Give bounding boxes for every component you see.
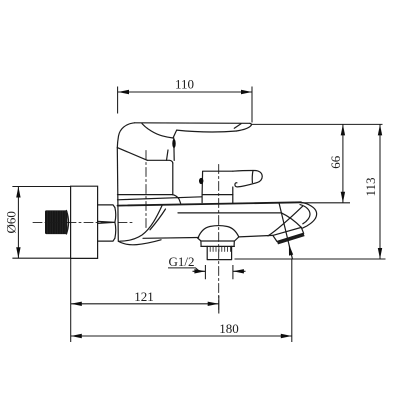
L3 curve down to nozzle <box>282 213 302 228</box>
dim 110 extension lines <box>118 87 252 123</box>
diverter knob block <box>202 171 233 194</box>
diverter indicator dot (black) <box>199 178 203 184</box>
svg-text:66: 66 <box>328 155 343 169</box>
body contour line L3 <box>178 212 282 214</box>
svg-text:G1/2: G1/2 <box>169 254 195 269</box>
svg-text:110: 110 <box>175 77 194 92</box>
body bottom right segment <box>239 235 273 237</box>
spout right edge arc <box>303 218 316 228</box>
arrowheads 66 <box>341 124 345 135</box>
body top line L2 (thick) <box>118 202 302 205</box>
escutcheon bottom dish <box>119 240 162 245</box>
dim 110 line <box>118 91 252 93</box>
handle pivot almond (black) <box>172 139 175 148</box>
dim 113 bottom extension line <box>235 258 386 260</box>
neck-lever junction curve <box>173 130 177 138</box>
handle neck edge <box>173 138 175 160</box>
outlet centerline <box>218 165 220 313</box>
diverter lever <box>233 170 262 186</box>
lever handle top edge <box>135 122 251 125</box>
wall plane extension line <box>70 258 72 342</box>
spout inner bend curve <box>268 206 303 236</box>
dim 180 right extension (leader vertical) <box>291 259 293 342</box>
dim 66 top extension line <box>251 123 383 125</box>
body left edge <box>117 148 118 242</box>
svg-text:180: 180 <box>219 321 239 336</box>
body-escutcheon fillet arc <box>120 206 162 242</box>
wall flange <box>71 186 98 258</box>
nipple thread runout arc <box>66 210 68 234</box>
diverter lever seam <box>251 171 254 183</box>
handle knob inner curve <box>142 124 173 138</box>
fillet echo arc <box>150 209 166 230</box>
handle neck inner line <box>167 150 169 160</box>
body bottom left segment <box>143 237 199 240</box>
G1/2 arrow tails <box>193 270 246 272</box>
dim D60 line <box>17 187 19 259</box>
arrowheads D60 <box>16 187 20 198</box>
nozzle aerator face (thick dark band) <box>277 233 305 244</box>
dim 121 right tick <box>218 296 220 314</box>
dim 121 line <box>71 303 219 305</box>
G1/2 ticks <box>205 265 233 279</box>
cartridge collar top <box>147 160 173 163</box>
body top line L1 <box>118 197 202 200</box>
lever handle underside <box>177 130 237 132</box>
threaded nipple (black) <box>45 210 67 234</box>
hex nut waist lines <box>98 221 115 223</box>
collar right flare onto body <box>173 195 181 204</box>
leader line through nozzle <box>279 204 292 259</box>
spout nozzle outline <box>273 227 304 241</box>
dim 66 bottom extension line <box>301 202 350 204</box>
leader arrowhead at aerator face <box>289 244 293 255</box>
arrowheads 180 <box>71 334 82 338</box>
inlet centerline <box>33 222 134 224</box>
G1/2 thread stub <box>207 246 231 259</box>
thread stub tick lines <box>210 247 230 252</box>
G1/2 underline <box>168 268 200 271</box>
arrowheads 113 <box>378 124 382 135</box>
hex nut right edge arcs <box>114 208 117 239</box>
outlet ring <box>201 241 235 246</box>
bell flare left <box>198 238 201 241</box>
lever handle tip <box>237 123 252 131</box>
cartridge collar bottom <box>118 194 173 196</box>
dim 113 line <box>379 124 381 259</box>
arrowheads 110 <box>118 90 129 94</box>
lever tip wedge line <box>234 124 241 129</box>
body top right corner <box>301 202 317 218</box>
dim 66 line <box>342 124 344 202</box>
dim D60 extension lines <box>12 187 70 259</box>
corner inner parallel arc <box>300 205 310 224</box>
diverter base sides <box>202 195 233 203</box>
nipple thread lines <box>48 211 66 234</box>
cartridge collar right edge <box>172 163 174 195</box>
arrowheads 121 <box>71 302 82 306</box>
svg-text:Ø60: Ø60 <box>3 211 18 233</box>
bell flare right <box>235 237 239 241</box>
bottom outlet bell dome <box>198 226 239 238</box>
arrowheads G1/2 <box>194 269 205 273</box>
svg-text:113: 113 <box>363 177 378 196</box>
collar centerline <box>145 151 147 229</box>
dim 180 line <box>71 335 292 337</box>
handle knob outline <box>117 123 147 161</box>
hex nut outline <box>98 205 115 241</box>
svg-text:121: 121 <box>134 289 154 304</box>
